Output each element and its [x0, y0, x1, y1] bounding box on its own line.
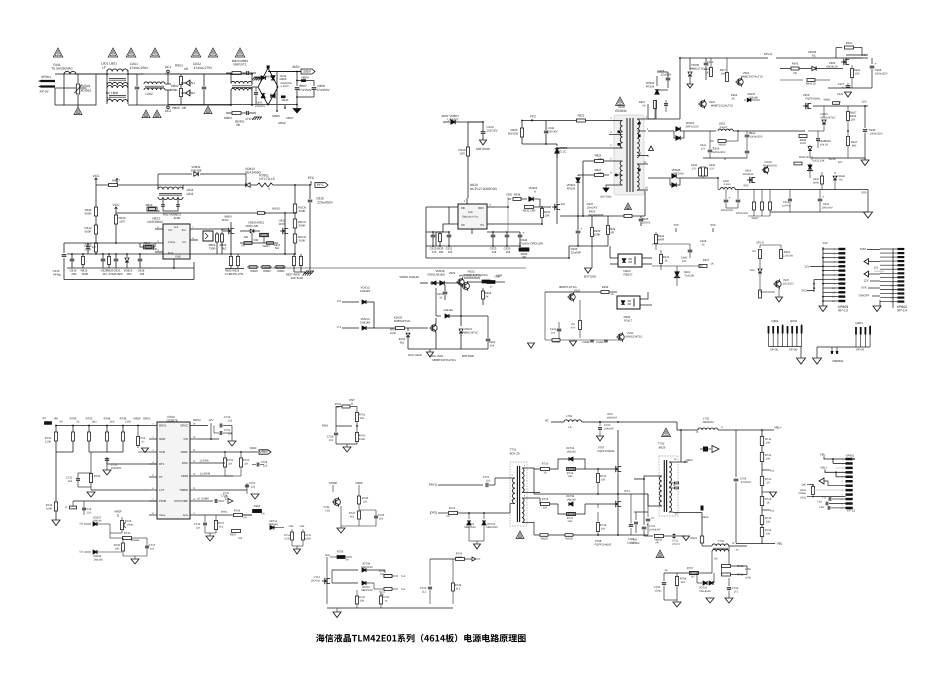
svg-text:5V2: 5V2 — [801, 289, 807, 293]
svg-text:2SC2655: 2SC2655 — [783, 282, 794, 285]
svg-text:VD815 1N4148: VD815 1N4148 — [399, 275, 419, 279]
snubber off pin8 — [655, 100, 657, 119]
svg-text:413R: 413R — [174, 216, 181, 220]
arrow EN2 — [186, 90, 191, 96]
cap C815 on left leg — [62, 254, 67, 256]
svg-text:104: 104 — [506, 250, 511, 254]
HT rail drop to T702 feed — [676, 422, 678, 430]
svg-text:782: 782 — [238, 537, 243, 540]
XP802 ground — [879, 300, 881, 306]
ADIM net — [198, 475, 233, 477]
svg-text:W819: W819 — [718, 144, 726, 147]
svg-text:ON/OFF: ON/OFF — [859, 294, 870, 298]
svg-text:VBL-: VBL- — [820, 452, 827, 456]
bottom rail inverter — [534, 534, 648, 536]
svg-text:14V: 14V — [822, 241, 827, 245]
R967 resistor — [232, 530, 241, 533]
svg-text:UF4007: UF4007 — [448, 117, 459, 121]
svg-text:105: 105 — [329, 439, 334, 442]
svg-text:LCT: LCT — [159, 488, 165, 492]
svg-text:305V: 305V — [292, 65, 300, 69]
ground sec1 — [828, 87, 872, 89]
svg-text:PFC: PFC — [308, 176, 315, 180]
T702 primary bottom from inverter — [648, 505, 654, 507]
svg-text:1uF/6V: 1uF/6V — [782, 204, 791, 207]
svg-text:2200u/16V: 2200u/16V — [712, 151, 725, 154]
svg-text:0R: 0R — [446, 515, 449, 518]
resistor R802 — [179, 89, 182, 97]
T702 primary winding — [660, 476, 662, 506]
svg-text:980: 980 — [852, 144, 857, 147]
svg-text:5V0: 5V0 — [861, 191, 866, 195]
svg-text:CNT: CNT — [349, 398, 355, 402]
svg-text:962: 962 — [68, 480, 73, 483]
resistor vertical at x=73 — [72, 426, 74, 433]
svg-text:9L1: 9L1 — [456, 587, 461, 590]
resistor R910 top — [836, 47, 842, 49]
svg-text:12V: 12V — [861, 100, 866, 104]
svg-text:27K: 27K — [701, 147, 706, 150]
resistor R966 dark — [519, 246, 521, 247]
transformer T820 EE2832 — [616, 97, 625, 106]
svg-text:XP-13: XP-13 — [838, 308, 848, 312]
svg-text:MMBT2222ALT1G: MMBT2222ALT1G — [459, 274, 481, 277]
svg-text:LF: LF — [107, 96, 111, 100]
svg-text:NC: NC — [714, 558, 718, 561]
N700 pin VIN — [190, 438, 198, 440]
svg-text:V-1: V-1 — [337, 325, 342, 329]
svg-text:10K: 10K — [766, 532, 771, 535]
T703 secondary R707 — [711, 552, 713, 574]
svg-text:223/2KV: 223/2KV — [255, 105, 266, 108]
svg-text:R805: R805 — [172, 106, 180, 110]
diode VD711 FB — [264, 267, 526, 269]
cap C942 — [557, 328, 562, 330]
svg-text:V920: V920 — [709, 101, 716, 104]
outer loop bottom edge — [64, 279, 194, 281]
svg-text:10K: 10K — [766, 457, 771, 460]
svg-text:R: R — [65, 506, 67, 509]
svg-text:1N4148: 1N4148 — [443, 309, 453, 312]
svg-text:ADIM: ADIM — [181, 474, 189, 478]
svg-text:100K: 100K — [359, 438, 365, 441]
svg-text:COMP: COMP — [329, 481, 338, 485]
svg-text:10K: 10K — [380, 573, 385, 576]
resistor divider stack R811 R812 R813 — [95, 185, 97, 207]
N700 pin ADIM — [190, 475, 198, 477]
cap right edge — [647, 494, 649, 517]
primary bottom rail continues — [568, 246, 570, 258]
svg-text:22R: 22R — [71, 272, 76, 276]
svg-text:0R: 0R — [153, 247, 157, 251]
svg-text:1K7: 1K7 — [691, 576, 696, 579]
T820 primary winding — [620, 121, 622, 149]
svg-text:VBL-: VBL- — [777, 542, 784, 546]
chain resistor R714 — [760, 497, 763, 506]
svg-text:LF: LF — [568, 426, 572, 429]
svg-text:25M4024: 25M4024 — [702, 421, 714, 424]
N700 pin SCD — [149, 451, 157, 453]
svg-text:SkipLatch Vcc: SkipLatch Vcc — [462, 216, 479, 219]
svg-text:AC1: AC1 — [165, 65, 172, 69]
svg-text:VCC: VCC — [93, 174, 101, 178]
aux ground rail — [560, 215, 645, 217]
connector XP801 AC plug — [42, 81, 55, 87]
resistor R814 comp — [144, 245, 154, 249]
svg-text:R706: R706 — [234, 510, 241, 513]
svg-text:VREF: VREF — [249, 447, 257, 450]
resistor R923 on rail — [624, 215, 632, 218]
transistor V928 — [431, 325, 437, 331]
svg-text:FQPF10N60E: FQPF10N60E — [598, 450, 615, 453]
ground 12V filter — [703, 157, 747, 159]
svg-text:V707: V707 — [598, 446, 605, 450]
svg-text:11C: 11C — [103, 272, 108, 276]
svg-text:223: 223 — [251, 485, 256, 488]
svg-text:115N: 115N — [222, 218, 229, 222]
XP-12 arrow symbol — [819, 478, 824, 484]
chain resistor R726 — [760, 528, 763, 537]
resistor R905 — [791, 67, 799, 70]
cap C819 — [71, 254, 73, 259]
svg-text:474/450V: 474/450V — [316, 88, 330, 92]
svg-text:M817: M817 — [286, 116, 294, 120]
svg-text:+20F: +20F — [494, 275, 501, 279]
diode VD905 — [744, 99, 746, 101]
svg-text:A0D413A: A0D413A — [826, 65, 838, 68]
svg-text:2700: 2700 — [284, 537, 290, 540]
svg-text:0R: 0R — [59, 421, 62, 424]
warning triangles under AC filter — [142, 110, 150, 118]
svg-text:0R: 0R — [243, 517, 246, 520]
cap C910 to ground — [482, 122, 484, 131]
svg-text:MMBT2907ALT1G: MMBT2907ALT1G — [741, 75, 763, 78]
T820 earth BOTGND left — [606, 185, 609, 188]
svg-text:R730: R730 — [124, 532, 131, 535]
zener VD922b — [407, 328, 409, 331]
diodes VD703 — [697, 582, 702, 584]
svg-text:VREF: VREF — [114, 510, 122, 514]
svg-text:FB2: FB2 — [300, 525, 305, 528]
C716 R707 below — [204, 515, 206, 522]
svg-text:Q804: Q804 — [855, 321, 863, 325]
svg-text:5/4: 5/4 — [79, 523, 83, 526]
svg-text:1M: 1M — [244, 462, 248, 465]
transistor V2N3 — [618, 334, 624, 340]
ground BOTGND near opto — [591, 246, 593, 268]
zener VD923 and cap C906 — [460, 316, 462, 326]
cap C933 — [864, 106, 866, 128]
diode VD804 input — [443, 121, 450, 123]
svg-text:22u/50A: 22u/50A — [661, 72, 672, 76]
svg-text:10K: 10K — [544, 213, 549, 217]
svg-text:T5.3A/250VAC: T5.3A/250VAC — [51, 67, 73, 71]
svg-text:680R: 680R — [658, 238, 665, 241]
warning triangle row top-left — [53, 48, 63, 57]
R718 gate pulldown lower — [597, 504, 599, 508]
varistor RV801 — [77, 74, 79, 83]
svg-text:V929: V929 — [829, 61, 836, 65]
svg-text:474/AC250V: 474/AC250V — [130, 66, 149, 70]
svg-text:680K: 680K — [813, 181, 819, 184]
flag 305V — [301, 69, 315, 74]
svg-text:1N4148: 1N4148 — [92, 520, 102, 523]
svg-text:FB2: FB2 — [819, 506, 824, 509]
N700 pin PDIM — [149, 500, 157, 502]
svg-text:27R: 27R — [710, 167, 715, 170]
earth under C810 — [306, 270, 314, 272]
big ground 5V — [770, 211, 868, 213]
svg-text:TL431 10K: TL431 10K — [811, 159, 824, 162]
svg-text:TIMER: TIMER — [179, 488, 188, 492]
svg-text:600K: 600K — [85, 212, 92, 216]
cap C728 and R760 — [335, 426, 337, 432]
resistor R9xx dark — [487, 281, 495, 284]
svg-text:1K: 1K — [766, 501, 769, 504]
snubber C700 zener — [599, 422, 601, 426]
ground sec2 — [864, 158, 866, 160]
svg-text:12V: 12V — [863, 279, 868, 283]
resistors R718 R711 to Tx — [384, 570, 386, 573]
svg-text:5v2: 5v2 — [770, 470, 775, 473]
resistor M817 — [109, 184, 118, 187]
svg-text:13/K: 13/K — [109, 421, 115, 424]
svg-text:XP-14: XP-14 — [897, 309, 907, 313]
svg-text:C820: C820 — [85, 243, 92, 246]
svg-text:2K: 2K — [485, 295, 489, 298]
resistor R761 — [356, 407, 358, 413]
svg-text:VREF: VREF — [355, 481, 363, 485]
svg-text:50R: 50R — [254, 239, 259, 242]
svg-text:5K1: 5K1 — [350, 515, 355, 518]
sub rail 68 — [780, 68, 843, 70]
svg-text:10 COMP: 10 COMP — [197, 498, 209, 501]
svg-text:R759: R759 — [337, 551, 344, 554]
terminal AC2 — [167, 90, 169, 105]
cap C902 on 5V rail — [789, 190, 791, 199]
svg-text:M816: M816 — [282, 99, 289, 102]
XP802 arrows — [864, 259, 869, 265]
ground row lower opto — [545, 339, 621, 341]
pot R706 — [120, 521, 123, 530]
svg-text:1K: 1K — [664, 259, 668, 262]
terminal AC1 — [167, 74, 169, 84]
cap C721 chain below — [643, 479, 645, 525]
chain resistor R712 — [760, 453, 763, 462]
svg-text:CS: CS — [182, 241, 186, 244]
svg-text:FB: FB — [461, 206, 465, 210]
R717 in line lower — [567, 512, 576, 515]
svg-text:R965: R965 — [254, 505, 261, 508]
svg-text:10K: 10K — [766, 441, 771, 444]
svg-text:V923: V923 — [803, 93, 810, 97]
svg-text:M38S22T1G: M38S22T1G — [394, 319, 410, 323]
svg-text:R907: R907 — [703, 259, 710, 262]
diode VD814 — [436, 315, 441, 317]
svg-text:0R0ac: 0R0ac — [799, 492, 807, 495]
svg-text:WY1: WY1 — [624, 490, 630, 493]
svg-text:EE2832: EE2832 — [615, 109, 627, 113]
pin8 rail 16V — [648, 118, 680, 120]
chain resistor R715 — [760, 516, 763, 525]
svg-text:Zcd: Zcd — [174, 226, 179, 229]
left rail down — [55, 452, 57, 500]
tap 5v2 lower — [762, 509, 770, 511]
XP809 aux link — [813, 280, 815, 293]
svg-text:223: 223 — [263, 464, 268, 467]
svg-text:10K: 10K — [360, 417, 365, 420]
svg-text:12V: 12V — [838, 161, 843, 164]
svg-text:222/1KV: 222/1KV — [546, 130, 557, 134]
svg-text:XP-04: XP-04 — [856, 348, 865, 352]
resistors R751 R750 — [291, 529, 293, 532]
svg-text:R971 840R: R971 840R — [408, 354, 422, 357]
mid rail — [534, 493, 618, 495]
svg-text:M38S23AT1G: M38S23AT1G — [626, 335, 643, 338]
title text — [316, 634, 526, 643]
wires from opto to left — [544, 292, 546, 340]
svg-text:Isns: Isns — [325, 554, 331, 557]
svg-text:47K: 47K — [571, 326, 576, 329]
svg-text:R9: R9 — [752, 250, 756, 253]
T702 pin wire up to L702 — [673, 430, 681, 462]
svg-text:13 ENA: 13 ENA — [199, 460, 209, 463]
aux winding caps under L811 — [162, 199, 164, 204]
svg-text:C905: C905 — [875, 68, 882, 72]
svg-text:474/450V: 474/450V — [298, 88, 312, 92]
svg-text:W815: W815 — [250, 269, 258, 273]
svg-text:CNT]: CNT] — [800, 497, 806, 500]
svg-text:W820: W820 — [263, 269, 271, 273]
svg-text:7V0: 7V0 — [673, 223, 678, 227]
svg-text:920: 920 — [561, 203, 566, 206]
wire drain to transformer pin1 — [557, 147, 609, 149]
resistor M823 with Y-cap to chassis — [226, 112, 232, 114]
svg-text:BOTGND: BOTGND — [462, 354, 474, 358]
svg-text:TL431B: TL431B — [684, 274, 694, 277]
svg-text:NCP33262: NCP33262 — [147, 220, 163, 224]
svg-text:V-2: V-2 — [337, 299, 342, 303]
svg-text:R707: R707 — [687, 567, 694, 570]
resistor R931 gate pulldown — [541, 206, 543, 208]
svg-text:T: T — [268, 188, 270, 192]
node row 452 — [56, 451, 73, 453]
svg-text:471/Y1: 471/Y1 — [245, 117, 255, 121]
svg-text:R814: R814 — [144, 241, 151, 245]
svg-text:12K: 12K — [363, 500, 368, 503]
sense resistors R929 R924 — [591, 216, 593, 228]
cap C825 — [102, 254, 104, 259]
svg-text:10K: 10K — [766, 520, 771, 523]
svg-text:47u/50V ORDL/DR: 47u/50V ORDL/DR — [519, 242, 543, 246]
svg-text:R967: R967 — [230, 534, 237, 537]
thermistor M1 — [831, 347, 833, 351]
svg-text:9K1: 9K1 — [681, 581, 686, 584]
svg-text:1K: 1K — [705, 71, 709, 74]
fuse F801 — [55, 73, 64, 75]
svg-text:103: 103 — [486, 479, 491, 482]
feedback loop left rail — [426, 206, 449, 208]
grounds T703 block — [676, 600, 678, 602]
svg-text:305V: 305V — [303, 70, 312, 74]
cap C816 — [115, 254, 117, 259]
svg-text:CS: CS — [480, 223, 484, 227]
PFC main rail — [96, 184, 246, 186]
VREF net right — [198, 451, 258, 453]
resistor vertical at x=123 — [122, 426, 124, 433]
svg-text:11: 11 — [832, 291, 835, 294]
N700 pin ENA — [190, 462, 198, 464]
svg-text:0R(P!)/T1: 0R(P!)/T1 — [233, 63, 247, 67]
svg-text:VIN: VIN — [183, 437, 188, 441]
svg-text:VDD: VDD — [506, 193, 512, 197]
svg-text:XP-12: XP-12 — [847, 509, 856, 513]
svg-text:PC817: PC817 — [624, 319, 633, 322]
resistor R810 — [108, 254, 110, 256]
resistor R935 — [439, 232, 441, 234]
svg-text:HT.: HT. — [545, 419, 550, 423]
svg-text:R958: R958 — [602, 286, 609, 289]
svg-text:VD923: VD923 — [464, 328, 473, 331]
flag VBL- — [736, 543, 775, 545]
resistor R940b — [807, 79, 815, 82]
svg-text:5/2: 5/2 — [79, 551, 83, 554]
svg-text:W828: W828 — [540, 538, 548, 541]
resistors R719 R720 — [728, 546, 730, 566]
cap C940 — [688, 249, 693, 251]
snubber R825 C911 — [521, 121, 523, 129]
svg-text:R801: R801 — [175, 64, 183, 68]
svg-text:1N4148: 1N4148 — [566, 450, 576, 453]
svg-text:Tx1: Tx1 — [401, 588, 406, 591]
svg-text:EN1: EN1 — [189, 81, 195, 85]
svg-text:5v2: 5v2 — [770, 510, 775, 513]
T820 secondary winding 1 — [637, 119, 639, 157]
svg-text:R716: R716 — [542, 498, 549, 501]
svg-text:R712: R712 — [449, 507, 456, 510]
TL431 N902 — [675, 272, 679, 276]
svg-text:DRV1: DRV1 — [159, 424, 167, 428]
svg-text:600K: 600K — [82, 272, 89, 276]
svg-text:N924: N924 — [624, 315, 631, 319]
comp loop left — [64, 242, 116, 244]
VBL+ sense chain vertical — [761, 430, 763, 544]
svg-text:730R: 730R — [209, 247, 216, 251]
transistor V7xx MMBT3904 — [334, 499, 341, 506]
resistor R910 — [467, 122, 469, 147]
bottom rail to earth — [168, 104, 268, 106]
svg-text:W831: W831 — [823, 99, 831, 102]
svg-text:Vsss: Vsss — [159, 513, 166, 517]
svg-text:Isns1: Isns1 — [221, 511, 228, 514]
svg-text:0.15R/P8.17W: 0.15R/P8.17W — [225, 272, 244, 276]
svg-text:0C: 0C — [76, 421, 79, 424]
svg-text:NTC7D-15: NTC7D-15 — [259, 177, 274, 181]
resistor R822 on PFC rail — [577, 119, 586, 122]
gate network lower R716 — [541, 503, 550, 506]
svg-text:PFC: PFC — [530, 115, 537, 119]
svg-text:BOTGND: BOTGND — [600, 196, 611, 199]
svg-text:BD876-HT1G: BD876-HT1G — [559, 285, 576, 289]
svg-text:221/1KF: 221/1KF — [630, 542, 640, 545]
svg-text:FB1: FB1 — [289, 525, 294, 528]
svg-text:220: 220 — [87, 511, 92, 514]
svg-text:W823: W823 — [262, 245, 270, 248]
svg-text:1K: 1K — [710, 262, 713, 265]
svg-text:C909: C909 — [837, 93, 844, 96]
resistor R754 — [675, 577, 678, 586]
svg-text:104650F: 104650F — [604, 427, 615, 430]
